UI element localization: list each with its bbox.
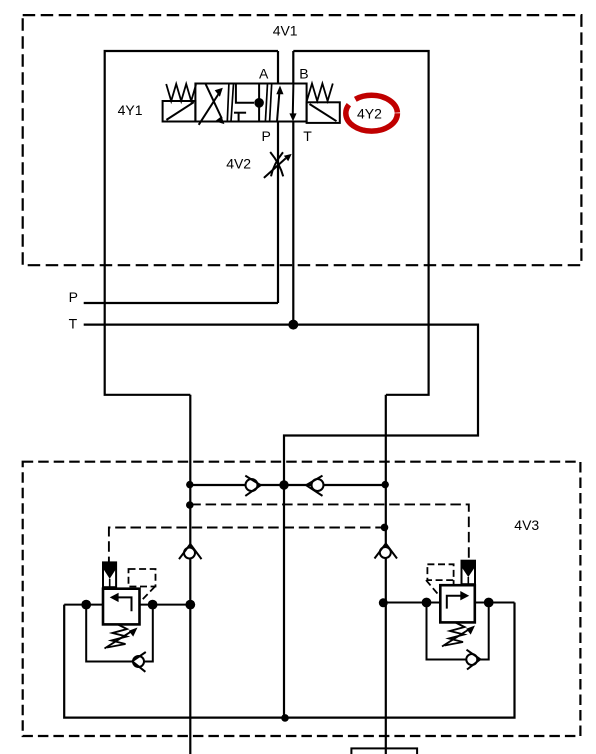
svg-text:T: T xyxy=(69,316,78,332)
svg-text:T: T xyxy=(303,128,312,144)
svg-text:4V3: 4V3 xyxy=(514,517,539,533)
svg-text:B: B xyxy=(299,66,308,82)
svg-text:4Y1: 4Y1 xyxy=(118,102,143,118)
svg-text:P: P xyxy=(262,128,271,144)
svg-text:P: P xyxy=(69,289,78,305)
svg-text:4V2: 4V2 xyxy=(226,155,251,171)
svg-text:4V1: 4V1 xyxy=(273,23,298,39)
svg-text:4Y2: 4Y2 xyxy=(357,105,382,121)
svg-text:A: A xyxy=(259,66,269,82)
